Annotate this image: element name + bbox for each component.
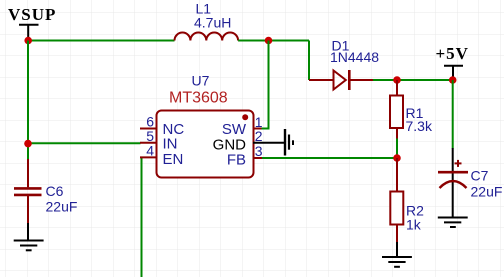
svg-text:1k: 1k <box>406 217 422 233</box>
junction after L1 <box>265 37 273 45</box>
capacitor C7 22uF polarized <box>438 148 502 217</box>
pin 3 FB <box>227 143 263 168</box>
power port +5V <box>436 44 469 80</box>
capacitor C6 22uF <box>14 159 77 223</box>
resistor R1 7.3k <box>390 80 433 139</box>
junction VSUP node <box>24 37 32 45</box>
svg-text:4.7uH: 4.7uH <box>194 15 231 31</box>
junction R1/R2 FB node <box>393 154 401 162</box>
power port VSUP <box>8 5 56 41</box>
ground below R2 <box>382 257 412 267</box>
junction at +5V node <box>449 76 457 84</box>
ground below C6 <box>14 241 44 251</box>
pin 4 EN <box>140 142 183 167</box>
junction C6/IN node <box>24 140 32 148</box>
svg-text:+5V: +5V <box>436 44 469 63</box>
svg-text:4: 4 <box>146 142 154 158</box>
svg-text:EN: EN <box>163 151 184 168</box>
ground below C7 <box>438 218 468 228</box>
wire vertical to pin 1 SW <box>268 41 270 129</box>
svg-text:22uF: 22uF <box>471 183 503 199</box>
wire left vertical VSUP down <box>27 41 29 161</box>
junction at R1 top <box>393 76 401 84</box>
wire C6 to ground <box>27 223 29 240</box>
wire top horizontal right segment <box>238 40 309 42</box>
svg-text:C6: C6 <box>46 183 64 199</box>
wire top horizontal left segment <box>28 40 175 42</box>
svg-text:7.3k: 7.3k <box>406 118 433 134</box>
pin 1 SW <box>222 114 270 138</box>
wire FB net horizontal <box>262 157 397 159</box>
svg-text:MT3608: MT3608 <box>169 90 228 107</box>
pin 6 NC <box>140 114 184 139</box>
wire vertical down to diode row <box>308 41 310 81</box>
resistor R2 1k <box>390 158 424 242</box>
svg-text:U7: U7 <box>192 73 210 89</box>
svg-text:2: 2 <box>255 128 263 144</box>
svg-text:1N4448: 1N4448 <box>330 49 379 65</box>
wire R1 bottom to junction <box>396 139 398 159</box>
wire R2 to ground <box>396 242 398 256</box>
wire +5V down to C7 <box>452 80 454 149</box>
wire EN net vertical to bottom edge <box>141 157 143 277</box>
svg-text:5: 5 <box>146 128 154 144</box>
svg-text:FB: FB <box>227 151 246 168</box>
pin 5 IN <box>140 128 178 153</box>
svg-text:22uF: 22uF <box>46 199 78 215</box>
wire IN net horizontal <box>28 142 141 144</box>
svg-text:C7: C7 <box>471 168 489 184</box>
pin 2 GND <box>213 128 284 154</box>
svg-text:VSUP: VSUP <box>8 5 56 24</box>
inductor L1 <box>175 1 239 41</box>
ground at pin 2 (sideways) <box>285 129 293 156</box>
svg-text:3: 3 <box>255 143 263 159</box>
diode D1 1N4448 <box>309 38 379 91</box>
wire diode to +5V <box>373 79 453 81</box>
IC U7 MT3608 body <box>157 73 254 178</box>
